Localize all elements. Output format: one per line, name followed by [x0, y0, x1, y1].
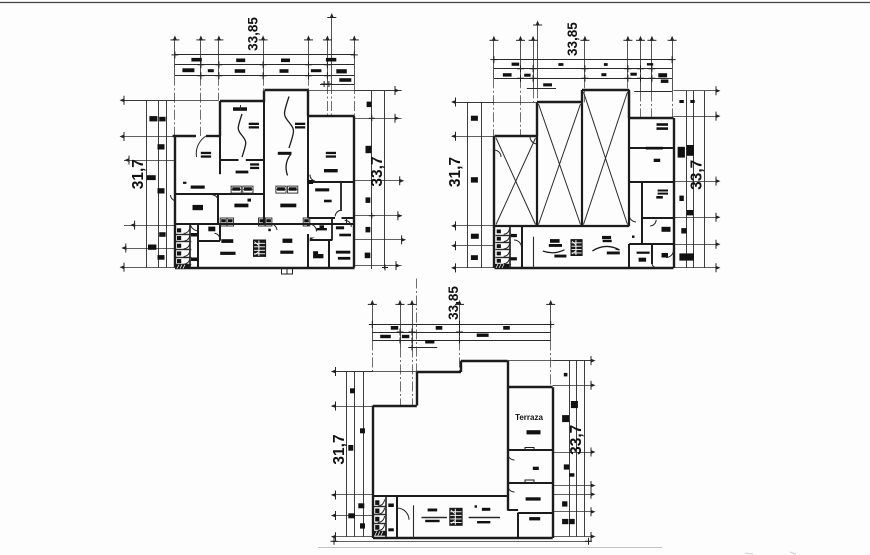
- plan 2 toilets: [509, 226, 511, 268]
- plan 1 toilets: [176, 234, 192, 236]
- svg-text:31,7: 31,7: [130, 159, 147, 189]
- plan 1 interior walls: [219, 136, 221, 174]
- plan 1: [174, 40, 176, 76]
- plan 2 right rooms: [629, 147, 673, 149]
- svg-text:31,7: 31,7: [447, 157, 464, 187]
- svg-text:33,85: 33,85: [245, 17, 260, 51]
- sheet top border: [0, 2, 870, 4]
- plan 3 exterior walls: [417, 371, 461, 373]
- svg-text:33,85: 33,85: [565, 22, 580, 56]
- plan 2 hall furniture: [533, 237, 535, 268]
- faint corner marks: [745, 552, 796, 554]
- plan 2 X-braced sections: [495, 225, 630, 227]
- svg-text:33,85: 33,85: [446, 286, 461, 320]
- svg-text:31,7: 31,7: [331, 434, 348, 464]
- plan 1 exterior walls: [220, 100, 265, 102]
- plan 2 exterior walls: [493, 136, 495, 268]
- svg-text:33,7: 33,7: [689, 160, 706, 190]
- plan 3 interior walls: [373, 495, 508, 497]
- plan 1 furniture: [238, 114, 246, 157]
- svg-text:33,7: 33,7: [369, 156, 386, 186]
- svg-text:33,7: 33,7: [568, 425, 585, 455]
- plan 3: [372, 304, 374, 340]
- plan 3 terraza wing: [508, 386, 553, 388]
- plan 2: [493, 40, 495, 78]
- plan 3 hall furniture: [413, 505, 415, 538]
- svg-text:Terraza: Terraza: [515, 413, 543, 422]
